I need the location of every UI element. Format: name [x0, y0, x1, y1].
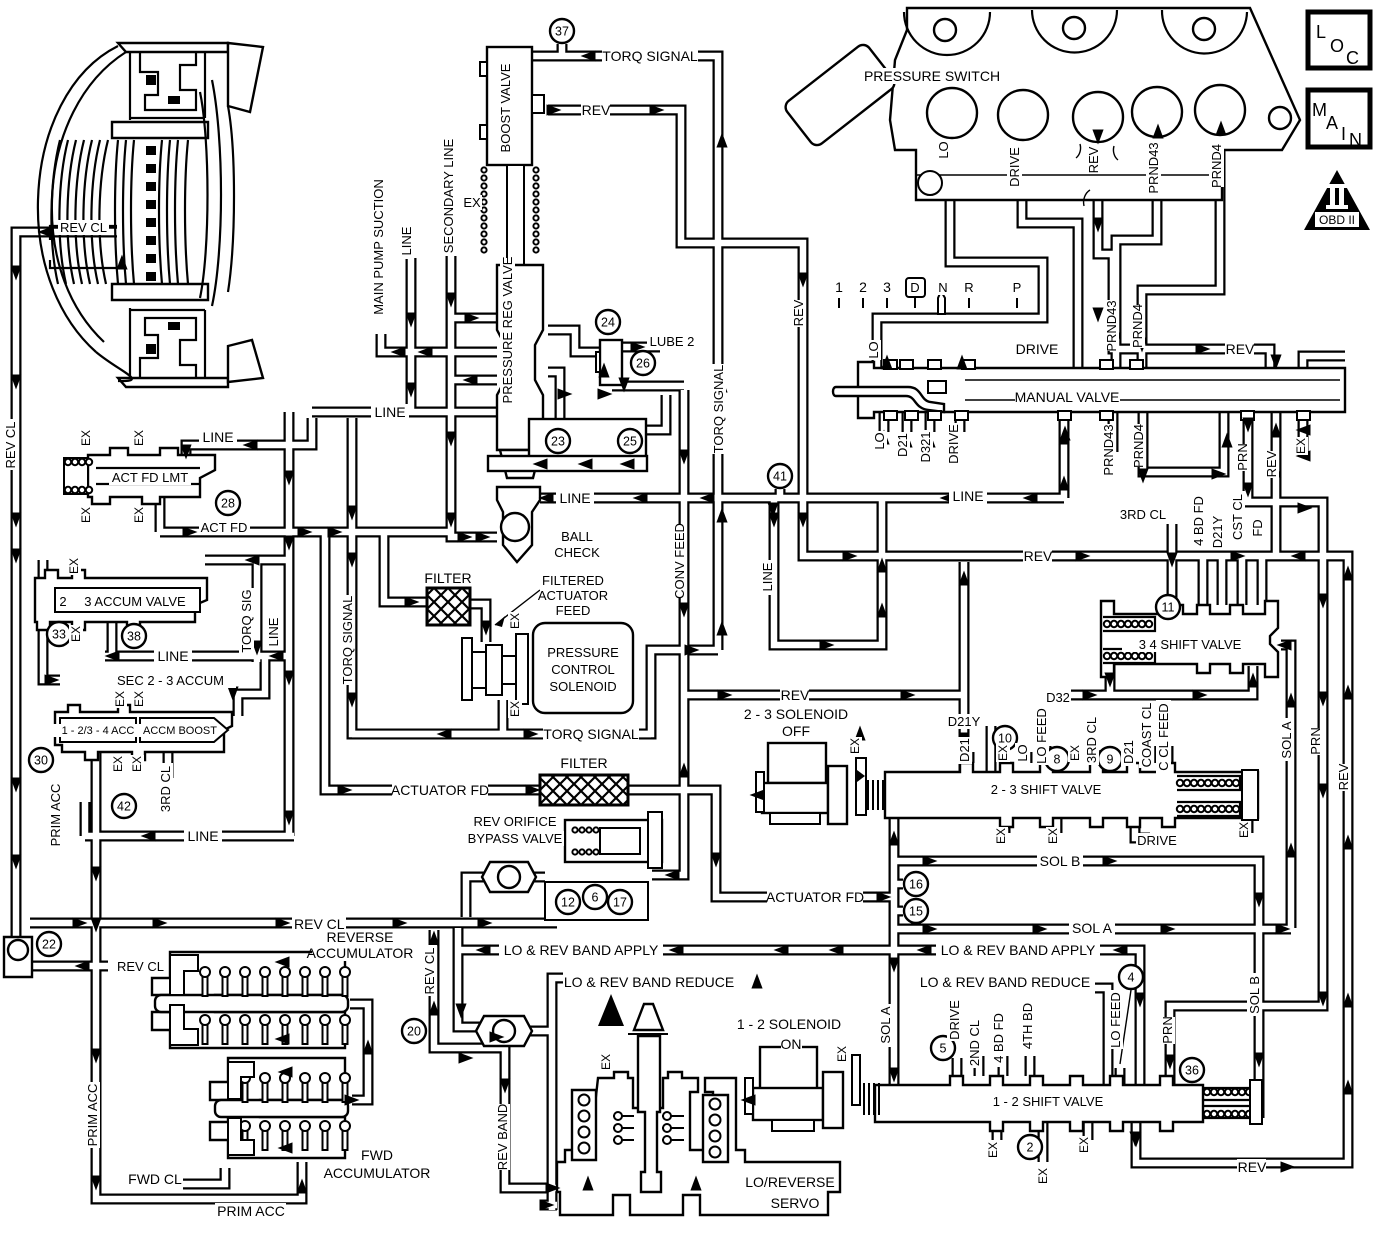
label EX	[132, 506, 146, 524]
wire circle15 stub	[894, 906, 903, 917]
wire LO-REV BAND REDUCE right	[1095, 988, 1108, 1085]
wire LO port stub	[879, 412, 890, 432]
label D21	[957, 737, 972, 764]
svg-text:LINE: LINE	[559, 490, 590, 506]
label ACT FD LMT	[109, 470, 191, 485]
svg-text:37: 37	[555, 25, 569, 39]
svg-text:LO & REV BAND APPLY: LO & REV BAND APPLY	[504, 942, 659, 958]
svg-text:R: R	[964, 280, 973, 295]
svg-text:4: 4	[1128, 971, 1135, 985]
wire REV main long	[803, 549, 1348, 1163]
LO/REVERSE servo	[557, 1004, 840, 1215]
wire LO switch	[877, 140, 1043, 368]
3 4 SHIFT VALVE	[1101, 601, 1278, 677]
label 4TH BD	[1020, 1000, 1035, 1051]
wire REV from manual valve	[1271, 412, 1282, 556]
svg-text:REV CL: REV CL	[422, 948, 437, 995]
label 1	[833, 279, 845, 295]
label LINE	[399, 224, 414, 259]
svg-text:LINE: LINE	[760, 562, 775, 591]
label D32	[1044, 690, 1071, 705]
svg-text:41: 41	[773, 470, 787, 484]
MAIN box	[1308, 90, 1370, 150]
svg-text:BOOST VALVE: BOOST VALVE	[498, 63, 513, 152]
wire TORQ SIGNAL pcs stub	[498, 700, 509, 734]
svg-text:SOL A: SOL A	[1279, 721, 1294, 758]
label DRIVE	[1136, 833, 1179, 848]
label N	[937, 280, 949, 295]
label CST CL	[1230, 491, 1245, 542]
wire REV CL hook label	[33, 961, 108, 972]
wire SOL A horizontal	[894, 924, 1291, 935]
wire 2-3 accum bottom stub	[107, 622, 118, 656]
svg-text:EX: EX	[79, 507, 93, 523]
node 4	[1119, 965, 1143, 989]
label PRND43	[1101, 424, 1116, 476]
label R	[963, 280, 975, 295]
node 33	[47, 622, 71, 646]
label LINE	[184, 828, 222, 844]
label REV	[1336, 763, 1351, 791]
svg-text:PRN: PRN	[1308, 727, 1323, 754]
svg-text:2 - 3 SOLENOID: 2 - 3 SOLENOID	[744, 706, 848, 722]
svg-text:SOL A: SOL A	[878, 1006, 893, 1043]
label SOL A	[1279, 718, 1294, 761]
label ACCUMULATOR	[307, 945, 414, 961]
node 6	[583, 885, 607, 909]
wire SOL B line	[894, 861, 1259, 1118]
label REVERSE	[327, 929, 394, 945]
svg-text:LO: LO	[936, 141, 951, 158]
svg-text:ACTUATOR FD: ACTUATOR FD	[391, 782, 489, 798]
svg-text:20: 20	[407, 1025, 421, 1039]
svg-text:SECONDARY LINE: SECONDARY LINE	[441, 138, 456, 253]
svg-text:16: 16	[909, 878, 923, 892]
label LO &amp; REV BAND REDUCE	[919, 974, 1091, 990]
node 24	[596, 310, 620, 334]
valve 23-25 box	[488, 419, 647, 471]
svg-text:LINE: LINE	[157, 648, 188, 664]
wire 1-2 port stub 4BDFD	[998, 1056, 1009, 1076]
svg-text:PRND43: PRND43	[1146, 142, 1161, 193]
label LUBE 2	[647, 334, 698, 349]
wire ACT FD horizontal	[160, 527, 451, 538]
svg-text:EX: EX	[994, 828, 1008, 844]
svg-text:3: 3	[883, 279, 891, 295]
svg-text:REV: REV	[781, 687, 810, 703]
wire PRIM ACC vertical	[96, 752, 302, 1199]
svg-text:LO & REV BAND APPLY: LO & REV BAND APPLY	[941, 942, 1096, 958]
fwd accumulator	[210, 1058, 350, 1158]
label EX	[1036, 1167, 1050, 1185]
label TORQ SIGNAL	[543, 726, 639, 742]
svg-text:REV ORIFICE: REV ORIFICE	[473, 814, 556, 829]
svg-text:3RD CL: 3RD CL	[1084, 717, 1099, 763]
node 23	[546, 429, 570, 453]
node 9	[1098, 747, 1122, 771]
label REV	[1237, 1159, 1267, 1175]
2 3 ACCUM VALVE body	[35, 570, 207, 630]
svg-text:BYPASS VALVE: BYPASS VALVE	[468, 831, 563, 846]
label EX	[1294, 437, 1308, 455]
label EX	[79, 506, 93, 524]
label P	[1011, 280, 1023, 295]
svg-text:REV: REV	[1024, 548, 1053, 564]
label 1 - 2 SHIFT VALVE	[980, 1094, 1117, 1109]
svg-text:3 ACCUM VALVE: 3 ACCUM VALVE	[84, 594, 186, 609]
label BYPASS VALVE	[466, 831, 564, 846]
svg-text:EX: EX	[113, 691, 127, 707]
svg-text:EX: EX	[1294, 438, 1308, 454]
label EX	[996, 744, 1010, 762]
label REV CL	[58, 220, 109, 235]
wire EX stub 1-2 valve b2	[1038, 1122, 1049, 1162]
svg-text:EX: EX	[463, 195, 481, 210]
label PRESSURE REG VALVE	[500, 256, 515, 403]
wire 23-25 right link	[646, 395, 666, 430]
label 3RD CL	[1084, 714, 1099, 765]
node 11	[1156, 595, 1180, 619]
1-2 solenoid	[745, 1047, 879, 1131]
svg-text:REV: REV	[1336, 763, 1351, 790]
svg-text:26: 26	[636, 357, 650, 371]
label REV	[1264, 450, 1279, 478]
boost valve and pressure reg valve	[480, 47, 544, 478]
svg-text:2: 2	[859, 279, 867, 295]
svg-text:REV CL: REV CL	[117, 959, 164, 974]
node 8	[1045, 747, 1069, 771]
wire FWD CL hook	[183, 1168, 225, 1184]
wire LINE upper horizontal	[312, 407, 497, 418]
wire 2-3 port stub CCLFEED	[1163, 746, 1174, 763]
label PRND43	[1146, 142, 1161, 194]
wire ACTUATOR FD right	[628, 790, 894, 897]
svg-text:15: 15	[909, 905, 923, 919]
svg-text:11: 11	[1162, 601, 1175, 615]
wire 3-4 port stub CSTCL	[1237, 558, 1248, 605]
svg-text:ACCUMULATOR: ACCUMULATOR	[324, 1165, 431, 1181]
svg-text:REV CL: REV CL	[60, 220, 107, 235]
wire EX stub 2-3 valve b2	[1052, 818, 1063, 833]
rev switch arcs	[1076, 144, 1118, 206]
svg-text:EX: EX	[132, 507, 146, 523]
svg-text:CONTROL: CONTROL	[551, 662, 615, 677]
svg-text:ACCM BOOST: ACCM BOOST	[143, 725, 217, 737]
wire reg valve stub upper	[451, 313, 497, 324]
svg-text:EX: EX	[79, 430, 93, 446]
svg-text:ACT FD LMT: ACT FD LMT	[112, 470, 188, 485]
wire LINE U loop	[774, 498, 882, 645]
wire 3RD CL drop	[1167, 524, 1178, 614]
wire CONV FEED / REV vertical	[652, 390, 684, 875]
label EX	[113, 690, 127, 708]
node 10	[993, 726, 1017, 750]
svg-text:LO & REV BAND REDUCE: LO & REV BAND REDUCE	[920, 974, 1090, 990]
svg-text:EX: EX	[132, 691, 146, 707]
svg-text:REV: REV	[1226, 341, 1255, 357]
svg-text:4 BD FD: 4 BD FD	[991, 1013, 1006, 1063]
svg-text:EX: EX	[1046, 828, 1060, 844]
reverse accumulator	[152, 952, 350, 1048]
svg-text:N: N	[938, 280, 947, 295]
svg-text:TORQ SIGNAL: TORQ SIGNAL	[711, 365, 726, 454]
svg-text:FEED: FEED	[556, 603, 591, 618]
wire reg to 23-25 box	[548, 372, 560, 419]
wire 2-3 accum left port	[38, 560, 49, 578]
svg-text:EX: EX	[1237, 822, 1251, 838]
ACT FD LMT valve	[64, 448, 215, 504]
label CONTROL	[551, 662, 615, 677]
node 12	[556, 890, 580, 914]
svg-text:FILTERED: FILTERED	[542, 573, 604, 588]
wire TORQ SIGNAL mid vertical	[352, 418, 718, 734]
svg-text:PRND43: PRND43	[1101, 424, 1116, 475]
label EX	[69, 625, 83, 643]
svg-text:LO: LO	[866, 341, 881, 358]
label PRN	[1308, 727, 1323, 755]
svg-text:33: 33	[52, 628, 66, 642]
1-2 SHIFT VALVE	[875, 1076, 1262, 1131]
svg-text:D21: D21	[895, 433, 910, 457]
wire 2-3 port stub D21a	[964, 752, 975, 763]
svg-text:EX: EX	[1068, 745, 1082, 761]
wire 2-3 port stub 3RDCL	[1091, 750, 1102, 763]
label ACT FD	[199, 520, 250, 535]
wire lube2 branch	[548, 330, 600, 352]
svg-text:LO: LO	[872, 432, 887, 449]
label SOL B	[1037, 853, 1083, 869]
label SOL B	[1247, 973, 1262, 1016]
label 3RD CL	[158, 763, 173, 814]
label DRIVE	[1007, 145, 1022, 188]
svg-text:ACTUATOR: ACTUATOR	[538, 588, 608, 603]
wire 3-4 port stub FD	[1257, 558, 1268, 605]
label 2ND CL	[967, 1017, 982, 1068]
label 4 BD FD	[991, 1008, 1006, 1067]
wire reg valve stub lower	[451, 375, 497, 386]
label EX	[508, 612, 522, 630]
label PRND4	[1131, 424, 1146, 468]
label D21	[895, 432, 910, 459]
svg-text:EX: EX	[508, 701, 522, 717]
label FILTER	[557, 755, 611, 771]
svg-text:DRIVE: DRIVE	[1007, 147, 1022, 187]
label REV	[791, 299, 806, 327]
wire junction vertical SOL A	[889, 818, 900, 1085]
svg-text:ACT FD: ACT FD	[201, 520, 248, 535]
OBD II triangle	[1304, 170, 1370, 230]
wire 1-2 port stub 4THBD	[1025, 1056, 1036, 1076]
label PRESSURE	[547, 645, 619, 660]
label PRND4	[1130, 304, 1145, 348]
label LINE	[760, 560, 775, 595]
svg-text:TORQ SIGNAL: TORQ SIGNAL	[543, 726, 639, 742]
svg-text:30: 30	[34, 754, 48, 768]
svg-text:FWD: FWD	[361, 1147, 393, 1163]
svg-text:OBD II: OBD II	[1319, 213, 1355, 227]
wire DRIVE switch	[1022, 140, 1078, 368]
svg-text:DRIVE: DRIVE	[1137, 833, 1177, 848]
svg-text:25: 25	[623, 435, 637, 449]
wire LINE lower-left	[85, 802, 294, 836]
wire 2-3 shift bottom drive hook	[1135, 818, 1150, 838]
wire conv feed top link	[612, 381, 684, 392]
label PRIM ACC	[85, 1082, 100, 1148]
svg-text:DRIVE: DRIVE	[946, 424, 961, 464]
label EX	[508, 700, 522, 718]
node 17	[608, 890, 632, 914]
svg-text:D321: D321	[918, 431, 933, 462]
label EX	[835, 1045, 849, 1063]
label DRIVE	[946, 423, 961, 466]
svg-text:4TH BD: 4TH BD	[1020, 1003, 1035, 1049]
label EX	[1077, 1136, 1091, 1154]
label D321	[918, 430, 933, 465]
label REV	[1086, 146, 1101, 174]
wire 2-3 accum right to TORQ SIG	[205, 555, 289, 566]
wire 3-4 valve bottom port	[1105, 664, 1116, 695]
lube 2 valve	[596, 340, 622, 385]
svg-text:SERVO: SERVO	[771, 1195, 820, 1211]
svg-text:PRN: PRN	[1160, 1016, 1175, 1043]
label C CL FEED	[1156, 700, 1171, 774]
clutch drum cross-section	[38, 43, 263, 387]
svg-text:REV CL: REV CL	[3, 422, 18, 469]
wire PRND43 below valve	[1108, 412, 1119, 452]
wire bypass junction right	[526, 872, 545, 883]
svg-text:C CL FEED: C CL FEED	[1156, 703, 1171, 770]
node 5	[931, 1036, 955, 1060]
svg-text:D32: D32	[1046, 690, 1070, 705]
label EX	[79, 429, 93, 447]
svg-text:24: 24	[601, 316, 615, 330]
label D21Y	[946, 714, 981, 729]
svg-text:LUBE 2: LUBE 2	[650, 334, 695, 349]
wire junction out	[524, 1026, 552, 1037]
svg-text:1 - 2 SHIFT VALVE: 1 - 2 SHIFT VALVE	[993, 1094, 1104, 1109]
pressure control solenoid	[462, 623, 633, 713]
svg-text:42: 42	[117, 800, 131, 814]
svg-text:22: 22	[42, 938, 56, 952]
svg-text:8: 8	[1054, 753, 1061, 767]
svg-text:PRIM ACC: PRIM ACC	[48, 784, 63, 847]
label REV ORIFICE	[470, 814, 560, 829]
svg-text:36: 36	[1185, 1064, 1199, 1078]
label EX	[1046, 827, 1060, 845]
svg-text:EX: EX	[1036, 1168, 1050, 1184]
label EX	[111, 755, 125, 773]
label PRIM ACC	[215, 1203, 286, 1219]
wire filter1 out	[470, 604, 486, 642]
wire rev cl horizontal	[30, 918, 557, 929]
wire rev-acc to fwd-acc link	[350, 1004, 368, 1100]
svg-text:MANUAL VALVE: MANUAL VALVE	[1015, 389, 1120, 405]
label 3 4 SHIFT VALVE	[1122, 637, 1259, 652]
wire SEC 2-3 ACCUM stub	[43, 622, 60, 680]
label MAIN PUMP SUCTION	[371, 178, 386, 315]
wire 1-2 port stub 2NDCL	[974, 1056, 985, 1076]
label EX	[994, 827, 1008, 845]
label PRIM ACC	[48, 782, 63, 848]
label ACTUATOR FD	[391, 782, 489, 798]
svg-text:N: N	[1349, 130, 1362, 150]
label SOL A	[878, 1004, 893, 1047]
wire bypass junction left	[466, 877, 492, 917]
svg-text:FILTER: FILTER	[560, 755, 607, 771]
label D	[909, 280, 921, 295]
svg-text:REVERSE: REVERSE	[327, 929, 394, 945]
svg-text:PRND43: PRND43	[1104, 300, 1119, 351]
node 37	[550, 19, 574, 43]
svg-text:LINE: LINE	[187, 828, 218, 844]
label D21	[1121, 739, 1136, 766]
label 2 - 3 SHIFT VALVE	[978, 782, 1115, 797]
wire REV switch	[1098, 142, 1270, 368]
svg-text:PRIM ACC: PRIM ACC	[85, 1084, 100, 1147]
label ON	[781, 1036, 803, 1052]
label EX	[1237, 821, 1251, 839]
svg-text:BALL: BALL	[561, 529, 593, 544]
label LO &amp; REV BAND APPLY	[936, 942, 1100, 958]
wire LO FEED stub	[1115, 1068, 1126, 1085]
wire servo inlet	[540, 1200, 557, 1211]
svg-text:3RD CL: 3RD CL	[158, 766, 173, 812]
svg-text:4 BD FD: 4 BD FD	[1191, 496, 1206, 546]
wire LO-REV BAND REDUCE left	[552, 978, 563, 1210]
svg-text:TORQ SIGNAL: TORQ SIGNAL	[340, 596, 355, 685]
wire circle41 stub	[775, 489, 786, 498]
svg-text:EX: EX	[111, 756, 125, 772]
node 22	[37, 932, 61, 956]
svg-text:LO/REVERSE: LO/REVERSE	[745, 1174, 834, 1190]
svg-text:10: 10	[998, 732, 1012, 746]
label PRND4	[1209, 144, 1224, 188]
label REV CL	[292, 916, 346, 932]
svg-text:EX: EX	[130, 756, 144, 772]
svg-text:C: C	[1346, 48, 1359, 68]
wire 2-3 port stub LO	[1022, 752, 1033, 763]
svg-text:REV: REV	[1264, 450, 1279, 477]
svg-text:LO & REV BAND REDUCE: LO & REV BAND REDUCE	[564, 974, 734, 990]
label LINE	[556, 490, 594, 506]
wire 2-3 port stub LOFEED	[1041, 746, 1052, 763]
svg-text:O: O	[1330, 36, 1344, 56]
wire line riser to manual valve	[1059, 412, 1070, 498]
label FD	[1250, 518, 1265, 538]
label EX	[986, 1141, 1000, 1159]
node 28	[216, 491, 240, 515]
svg-text:EX: EX	[132, 430, 146, 446]
label REV CL	[3, 419, 18, 470]
label EX	[132, 429, 146, 447]
label FWD	[361, 1147, 393, 1163]
svg-text:DRIVE: DRIVE	[947, 1000, 962, 1040]
label 1 - 2/3 - 4 ACC	[46, 724, 149, 737]
svg-text:REV: REV	[1086, 146, 1101, 173]
label TORQ SIG	[239, 588, 254, 654]
junction box 12-6-17	[482, 862, 648, 920]
label SECONDARY LINE	[441, 138, 456, 253]
wire EX stub manual valve	[1298, 412, 1309, 455]
svg-text:TORQ SIGNAL: TORQ SIGNAL	[602, 48, 698, 64]
svg-text:REV: REV	[582, 102, 611, 118]
label LO FEED	[1108, 990, 1123, 1049]
svg-text:A: A	[1326, 113, 1338, 133]
svg-text:D21Y: D21Y	[948, 714, 981, 729]
svg-text:1: 1	[835, 279, 843, 295]
label LINE	[371, 404, 409, 420]
wire REV CL drop	[434, 930, 557, 1188]
